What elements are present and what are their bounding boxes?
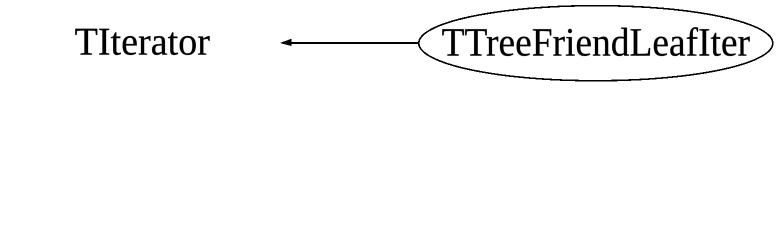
node TIterator (base class name, plain text) [75,29,209,55]
ellipse node TTreeFriendLeafIter [419,6,773,81]
label TTreeFriendLeafIter (derived class name inside ellipse) [442,27,749,56]
wire: inheritance arrow shaft from ellipse to TIterator [288,42,418,44]
arrowhead (filled, points left at TIterator) [280,39,292,46]
